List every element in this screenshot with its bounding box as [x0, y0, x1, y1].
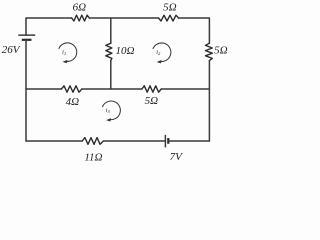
wire top-left segment	[26, 18, 72, 35]
wire top-right segment	[179, 18, 210, 43]
resistor R 6ohm top-left	[72, 15, 90, 21]
resistor R 5ohm right side (vertical)	[206, 43, 213, 60]
svg-text:10Ω: 10Ω	[116, 45, 135, 57]
resistor R 5ohm middle-right	[142, 86, 161, 92]
wire middle horizontal center	[82, 88, 142, 90]
mesh current arrow i2	[153, 43, 171, 62]
battery V1 26V plate short	[22, 39, 32, 41]
svg-text:i1: i1	[62, 49, 66, 56]
wire middle vertical upper	[110, 18, 112, 43]
svg-text:i3: i3	[106, 107, 111, 114]
wire top-middle segment	[89, 17, 158, 19]
wire middle vertical lower	[110, 61, 112, 90]
arrowhead of i3	[106, 118, 111, 121]
svg-text:5Ω: 5Ω	[145, 95, 159, 107]
wire middle horizontal left	[26, 88, 61, 90]
battery V1 26V plate long	[18, 34, 35, 36]
arrowhead of i2	[157, 60, 162, 63]
svg-text:6Ω: 6Ω	[73, 2, 87, 14]
svg-text:26V: 26V	[2, 44, 21, 56]
resistor R 4ohm middle-left	[61, 86, 82, 92]
wire left-lower segment	[25, 40, 27, 141]
wire bottom-left segment	[26, 140, 82, 142]
svg-text:5Ω: 5Ω	[163, 2, 177, 14]
resistor R 5ohm top-right	[159, 15, 179, 21]
mesh current arrow i3	[102, 101, 120, 120]
wire bottom-middle segment	[103, 140, 165, 142]
wire bottom-right segment	[168, 140, 209, 142]
svg-text:i2: i2	[156, 49, 161, 56]
wire middle horizontal right	[161, 88, 209, 90]
svg-text:7V: 7V	[170, 151, 184, 163]
resistor R 11ohm bottom	[82, 138, 103, 145]
svg-text:5Ω: 5Ω	[214, 44, 228, 56]
arrowhead of i1	[63, 60, 68, 63]
battery V2 7V plate long	[164, 135, 166, 148]
resistor R 10ohm middle (vertical)	[106, 43, 112, 60]
battery V2 7V plate short	[167, 138, 169, 144]
svg-text:4Ω: 4Ω	[66, 96, 80, 108]
wire right-lower segment	[208, 61, 210, 142]
mesh current arrow i1	[59, 43, 77, 62]
svg-text:11Ω: 11Ω	[84, 152, 102, 164]
